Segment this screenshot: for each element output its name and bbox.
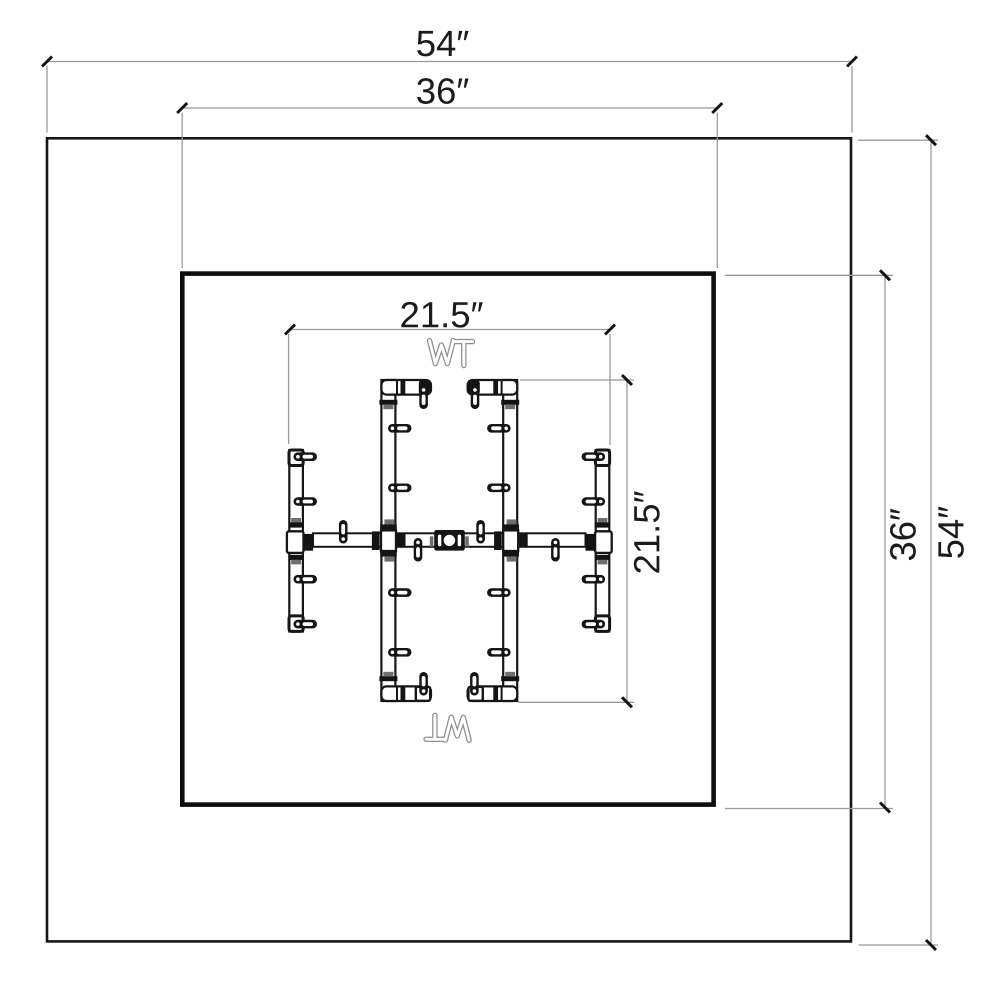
inner-right cross fitting — [494, 519, 528, 561]
outer-left tee fitting — [287, 518, 313, 564]
inner-right pipe orifice tab — [487, 588, 511, 597]
tick marks — [926, 135, 936, 950]
inner-left cross fitting — [372, 519, 406, 561]
main pipe orifice tab up — [339, 520, 348, 544]
outer-right pipe bottom cap — [595, 616, 609, 632]
label 21.5 inch vertical — [634, 491, 660, 572]
outer-left pipe top cap — [289, 450, 303, 466]
dim line and extension lines 36in right — [725, 275, 893, 808]
inner-left top elbow stub — [381, 380, 431, 395]
inner-left bottom elbow rising tab — [419, 672, 428, 696]
label 36 inch vertical — [890, 509, 916, 560]
main pipe orifice tab down — [414, 538, 423, 562]
tick marks — [42, 57, 857, 67]
inner-right pipe orifice tab — [487, 484, 511, 493]
dim line and extension lines 54in right — [858, 140, 938, 945]
center gas inlet fitting — [434, 530, 465, 551]
tick marks — [622, 375, 632, 707]
label 36 inch — [417, 78, 468, 104]
outer-left pipe orifice tab — [294, 452, 318, 461]
outer-left pipe orifice tab — [294, 620, 318, 629]
outer-right tee fitting — [586, 518, 612, 564]
coupling below top-left elbow — [379, 400, 397, 405]
inner-left pipe orifice tab — [388, 424, 412, 433]
label 54 inch vertical — [938, 507, 963, 558]
coupling below top-right elbow — [501, 400, 519, 405]
inner-left burner pipe — [381, 380, 395, 701]
outer-right pipe orifice tab — [582, 620, 606, 629]
inner-left top elbow hanging tab — [419, 386, 428, 410]
WT wordmark bottom (rotated 180) — [426, 715, 469, 740]
inner-right top elbow stub — [468, 380, 518, 395]
dim line and extension lines 36in top — [182, 108, 717, 268]
tick marks — [285, 325, 615, 335]
outer-left pipe orifice tab — [294, 575, 318, 584]
outer-right pipe orifice tab — [582, 452, 606, 461]
outer-left burner pipe — [289, 450, 303, 632]
tick marks — [177, 103, 722, 113]
inner-left pipe orifice tab — [388, 484, 412, 493]
dim line and extension lines 21.5in horizontal — [289, 330, 610, 446]
inner-left pipe orifice tab — [388, 648, 412, 657]
outer-right burner pipe — [596, 450, 610, 632]
dim line and extension lines 54in top — [47, 62, 852, 133]
tick marks — [880, 270, 890, 812]
inner-right burner pipe — [503, 380, 517, 701]
inner-left pipe orifice tab — [388, 588, 412, 597]
gray bands flanking center inlet — [430, 536, 434, 546]
outer-left pipe orifice tab — [294, 497, 318, 506]
inner-left bottom elbow stub — [381, 686, 431, 701]
label 54 inch — [417, 31, 468, 56]
main pipe orifice tab up — [476, 520, 485, 544]
inner-right bottom elbow stub — [468, 686, 518, 701]
burner main horizontal pipe — [313, 533, 586, 547]
dim line and extension lines 21.5in vertical — [518, 380, 634, 702]
coupling above bottom-right elbow — [501, 676, 519, 681]
outer-right pipe orifice tab — [582, 575, 606, 584]
outer-right pipe orifice tab — [582, 497, 606, 506]
label 21.5 inch — [401, 302, 482, 328]
inner-right bottom elbow rising tab — [470, 672, 479, 696]
inner-right top elbow hanging tab — [471, 386, 480, 410]
coupling above bottom-left elbow — [379, 676, 397, 681]
inner-right pipe orifice tab — [487, 424, 511, 433]
outer-left pipe bottom cap — [289, 616, 303, 632]
inner-right pipe orifice tab — [487, 648, 511, 657]
outer-right pipe top cap — [595, 450, 609, 466]
main pipe orifice tab down — [551, 538, 560, 562]
